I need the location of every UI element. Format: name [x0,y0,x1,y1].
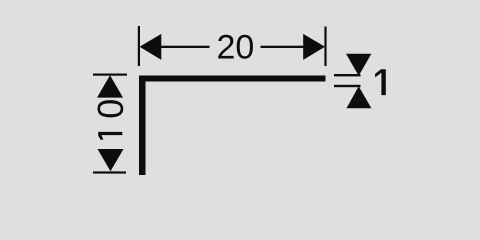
dimension 10: down arrowhead [98,149,124,171]
dimension 1: lower arrowhead (pointing up) [347,86,372,108]
svg-text:0: 0 [90,99,131,119]
dimension 10: value label digit "1" (rotated, drawn as path) [98,132,122,140]
svg-text:20: 20 [216,29,254,67]
dimension 20: line left segment [161,46,210,48]
dimension 20: left arrowhead [140,34,162,60]
dimension 20: right arrowhead [303,34,325,60]
profile vertical leg (left web of L-angle) [139,76,146,176]
dimension 1: upper arrowhead (pointing down) [346,54,371,76]
dimension 10: bottom extension tick [93,171,126,173]
dimension 20: right extension tick [324,27,326,67]
dimension 20: left extension tick [138,26,140,66]
dimension 10: up arrowhead [97,75,123,97]
dimension 1: lower extension line [334,85,361,87]
profile horizontal leg (top flange of L-angle) [139,76,326,82]
dimension 20: line right segment [261,46,305,48]
dimension 1: value label "1" (drawn as path) [375,69,386,95]
dimension 1: upper extension line [334,74,361,76]
dimension 10: top extension tick [93,74,127,76]
